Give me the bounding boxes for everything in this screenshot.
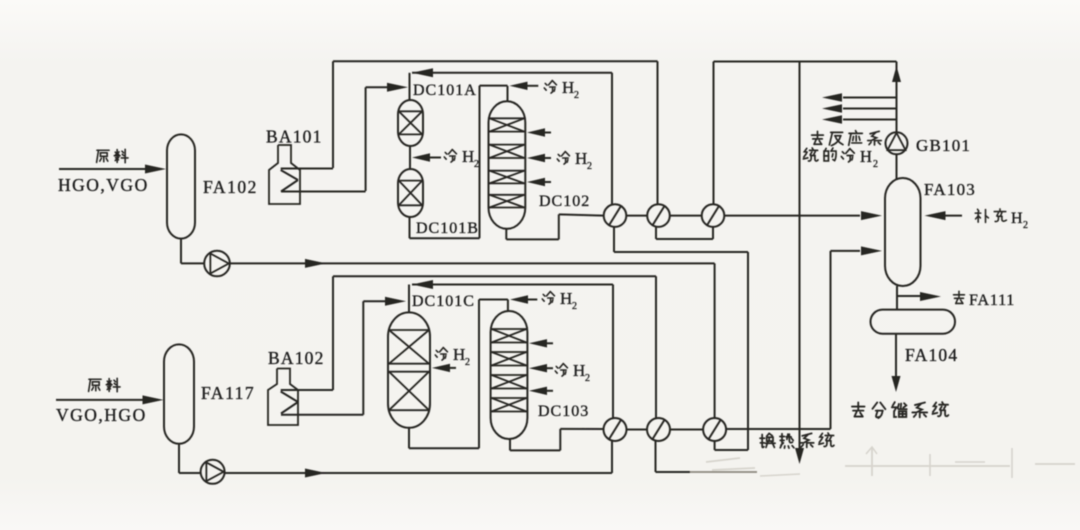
wire E2-E3 (670, 215, 702, 217)
vessel FA103 (HP separator) (885, 178, 921, 286)
wire feed line HGO,VGO (59, 168, 148, 170)
wire recycle line into DC101A (from exchanger E1 top) (412, 68, 433, 77)
wire DC101B bottom to DC102 top (409, 217, 411, 238)
svg-text:FA102: FA102 (203, 177, 258, 197)
svg-text:FA104: FA104 (905, 345, 958, 365)
wire DC101C top riser (408, 285, 410, 313)
wire E2-E3 bottom U connector (655, 227, 657, 239)
compressor GB101 (886, 132, 908, 154)
pump GA (FA102 bottoms pump) (204, 251, 230, 277)
wire BA101 inlet riser from header (332, 61, 334, 168)
svg-text:DC101A: DC101A (413, 82, 477, 99)
vessel FA117 (feed surge drum) (164, 344, 194, 443)
wire FA102 bottom outlet (180, 239, 182, 264)
wire E5 bottom outlet (655, 441, 657, 472)
svg-text:2: 2 (465, 357, 471, 368)
decorative (706, 447, 1075, 478)
wire cold H2 into DC103 top (510, 295, 528, 303)
node label 去分馏系统 (852, 402, 865, 416)
wire bottom effluent to FA103 lower inlet (726, 428, 830, 430)
svg-text:2: 2 (572, 301, 578, 312)
wire E1-E2 (626, 215, 647, 217)
heat exchanger E1 top row (604, 204, 627, 227)
reactor DC102 (main reactor) (489, 101, 526, 229)
wire cold H2 quench into DC101C (432, 364, 450, 372)
svg-text:HGO,VGO: HGO,VGO (58, 175, 149, 195)
wire cold H2 into DC102 top (510, 82, 528, 90)
svg-text:2: 2 (585, 373, 591, 384)
svg-text:DC103: DC103 (538, 403, 589, 420)
node label 去反应系统的冷H2 (812, 131, 824, 144)
wire DC101C bottom to DC103 top (408, 428, 410, 449)
svg-text:H: H (860, 147, 873, 166)
svg-text:2: 2 (1023, 220, 1029, 231)
svg-text:GB101: GB101 (916, 136, 971, 155)
wire cold H2 side quench arrows into DC103 (529, 339, 547, 347)
heat exchanger E5 bottom row (647, 418, 670, 441)
heat exchanger E6 bottom row (703, 418, 726, 441)
heat exchanger E3 top row (702, 204, 725, 227)
wire BA101 outlet riser to DC101A (365, 87, 367, 191)
wire BA102 outlet riser to DC101C (362, 301, 364, 415)
svg-text:2: 2 (574, 90, 580, 101)
wire furnace BA102 coil (281, 389, 333, 391)
wire DC103 bottom outlet to bottom exchangers (509, 439, 511, 450)
wire cold H2 branch arrows to reaction system (843, 97, 897, 99)
svg-text:FA111: FA111 (969, 292, 1015, 309)
svg-text:H: H (1011, 210, 1024, 227)
wire FA104 outlet to fractionation (895, 334, 897, 378)
svg-text:DC101C: DC101C (412, 293, 475, 310)
wire FA103 bottom outlet (896, 286, 898, 310)
wire DC101A to DC101B connector (409, 146, 411, 169)
wire makeup H2 into FA103 (943, 215, 962, 217)
wire E5-E6 (670, 429, 703, 431)
wire pump1 discharge to exchanger E-3 bottom top (230, 262, 715, 264)
wire recycle line into DC101C (412, 280, 433, 289)
vessel FA104 (LP separator) (871, 310, 956, 334)
wire E6 wrap-around loop (747, 429, 749, 450)
wire DC102 bottom outlet to exchangers (505, 229, 507, 240)
svg-text:VGO,HGO: VGO,HGO (56, 405, 147, 425)
svg-text:DC101B: DC101B (416, 220, 479, 237)
wire FA117 bottom outlet (178, 444, 180, 473)
reactor DC103 (491, 311, 528, 439)
wire pump2 discharge to exchanger row (225, 472, 612, 474)
wire reactor effluent to FA103 (724, 215, 860, 217)
node 原料 (feed) label bottom (89, 379, 101, 391)
wire GB101 suction from FA103 (896, 154, 898, 178)
node label 换热系统 (760, 433, 775, 447)
vessel FA102 (feed surge drum) (167, 134, 195, 238)
node label 去FA111 (954, 291, 965, 303)
wire DC101A top riser (409, 73, 411, 100)
reactor DC101C (388, 312, 430, 427)
reactor DC101A (398, 100, 423, 146)
wire DC103 top riser (507, 300, 509, 312)
wire BA102 inlet riser (332, 276, 334, 390)
wire E1 bottom down-over-down to bottom row (613, 227, 615, 252)
svg-text:2: 2 (873, 159, 879, 170)
wire cold H2 quench into connector (412, 153, 430, 161)
wire branch to FA111 (897, 295, 920, 297)
wire E4-E5 (627, 429, 648, 431)
wire furnace outlet to DC101A top (366, 86, 401, 88)
svg-text:DC102: DC102 (539, 193, 590, 210)
svg-text:BA102: BA102 (268, 348, 325, 368)
heat exchanger E4 bottom row (604, 418, 627, 441)
wire DC102 top riser (507, 86, 509, 102)
wire bottom header (exchanger E2 to furnace BA102) (333, 275, 656, 277)
wire recycle gas header from GB101 (713, 62, 715, 205)
svg-text:FA103: FA103 (924, 180, 976, 199)
svg-text:FA117: FA117 (201, 383, 255, 403)
reactor DC101B (398, 169, 423, 217)
wire cold H2 side quench arrows into DC102 (527, 128, 545, 136)
wire furnace BA101 coil (281, 168, 333, 170)
heat exchanger E2 top row (647, 204, 670, 227)
wire line to heat exchange system (799, 62, 801, 452)
pump GB (FA117 bottoms pump) (201, 460, 225, 484)
wire top header (exchanger to furnace) (333, 60, 658, 62)
svg-text:2: 2 (587, 161, 593, 172)
node 原料 (feed) label top (97, 150, 109, 162)
wire feed line VGO,HGO (56, 399, 146, 401)
svg-text:BA101: BA101 (266, 127, 323, 147)
node label 补充H2 (975, 209, 988, 222)
wire furnace outlet to DC101C top (363, 300, 399, 302)
